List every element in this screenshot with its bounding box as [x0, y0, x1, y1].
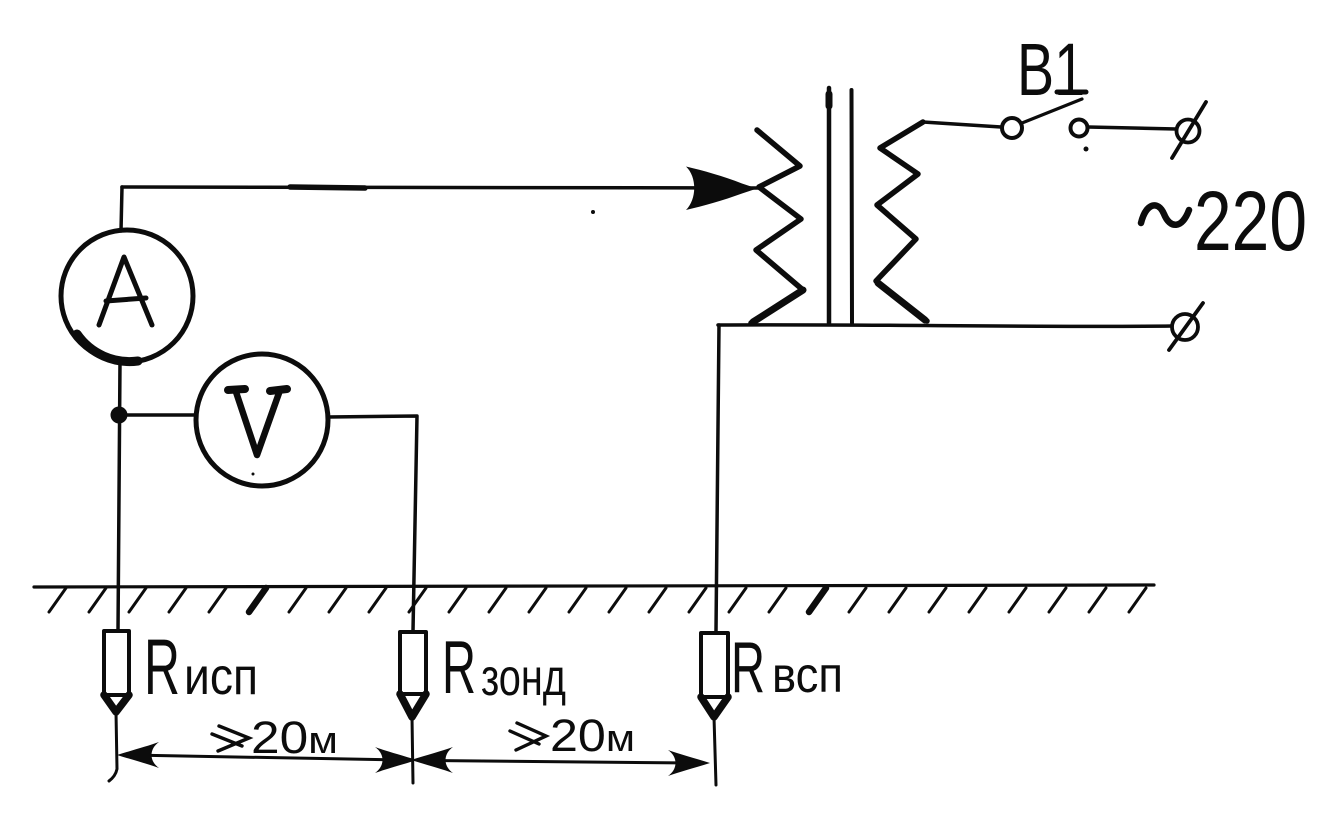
svg-text:220: 220 [1194, 174, 1307, 268]
svg-text:всп: всп [772, 647, 843, 703]
svg-text:R: R [731, 628, 765, 708]
svg-text:R: R [442, 625, 476, 709]
svg-text:зонд: зонд [481, 649, 566, 707]
svg-text:20м: 20м [550, 710, 635, 761]
svg-text:20м: 20м [251, 712, 338, 763]
svg-text:исп: исп [184, 648, 258, 706]
svg-text:B1: B1 [1017, 28, 1085, 111]
svg-text:R: R [144, 622, 180, 711]
